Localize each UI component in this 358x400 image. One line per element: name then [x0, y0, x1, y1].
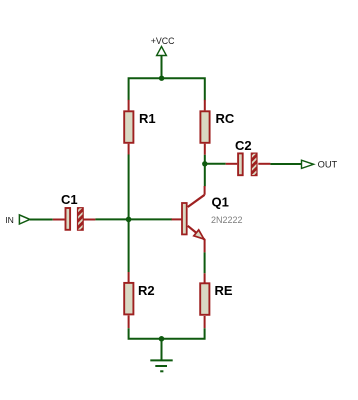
- junction base node: [126, 217, 132, 223]
- resistor R2: [124, 272, 133, 328]
- wire R1 to base node: [128, 155, 130, 220]
- svg-text:RE: RE: [215, 283, 233, 298]
- svg-text:2N2222: 2N2222: [211, 215, 243, 225]
- wire top rail: [129, 78, 205, 100]
- svg-text:R1: R1: [139, 111, 156, 126]
- power +VCC: [157, 47, 167, 79]
- wire C1 to base node: [95, 218, 128, 220]
- wire emitter to RE: [204, 252, 206, 273]
- wire base node to Q1: [129, 218, 172, 220]
- wire C2 to OUT: [270, 163, 301, 165]
- ground: [150, 339, 172, 372]
- resistor RE: [200, 273, 209, 328]
- resistor RC: [200, 100, 209, 155]
- junction collector node: [202, 161, 207, 166]
- wire collector node to C2: [205, 163, 226, 165]
- svg-text:C1: C1: [61, 192, 78, 207]
- capacitor C2: [226, 148, 271, 181]
- resistor R1: [124, 100, 133, 155]
- transistor Q1: [172, 186, 205, 252]
- capacitor C1: [53, 202, 96, 235]
- wire RE to ground rail: [162, 328, 205, 339]
- port OUT arrow: [302, 160, 314, 168]
- svg-text:C2: C2: [235, 138, 252, 153]
- svg-text:+VCC: +VCC: [151, 36, 175, 46]
- junction VCC node: [159, 76, 164, 81]
- wire RC to collector node: [204, 155, 206, 187]
- junction ground node: [159, 336, 165, 342]
- port IN arrow: [19, 215, 30, 224]
- wire IN to C1: [30, 219, 53, 221]
- svg-text:Q1: Q1: [212, 195, 229, 210]
- svg-text:RC: RC: [216, 111, 235, 126]
- svg-text:R2: R2: [138, 283, 155, 298]
- wire base node to R2: [128, 219, 130, 272]
- svg-text:OUT: OUT: [318, 160, 338, 170]
- wire R2 to ground rail: [129, 328, 162, 339]
- svg-text:IN: IN: [5, 215, 14, 225]
